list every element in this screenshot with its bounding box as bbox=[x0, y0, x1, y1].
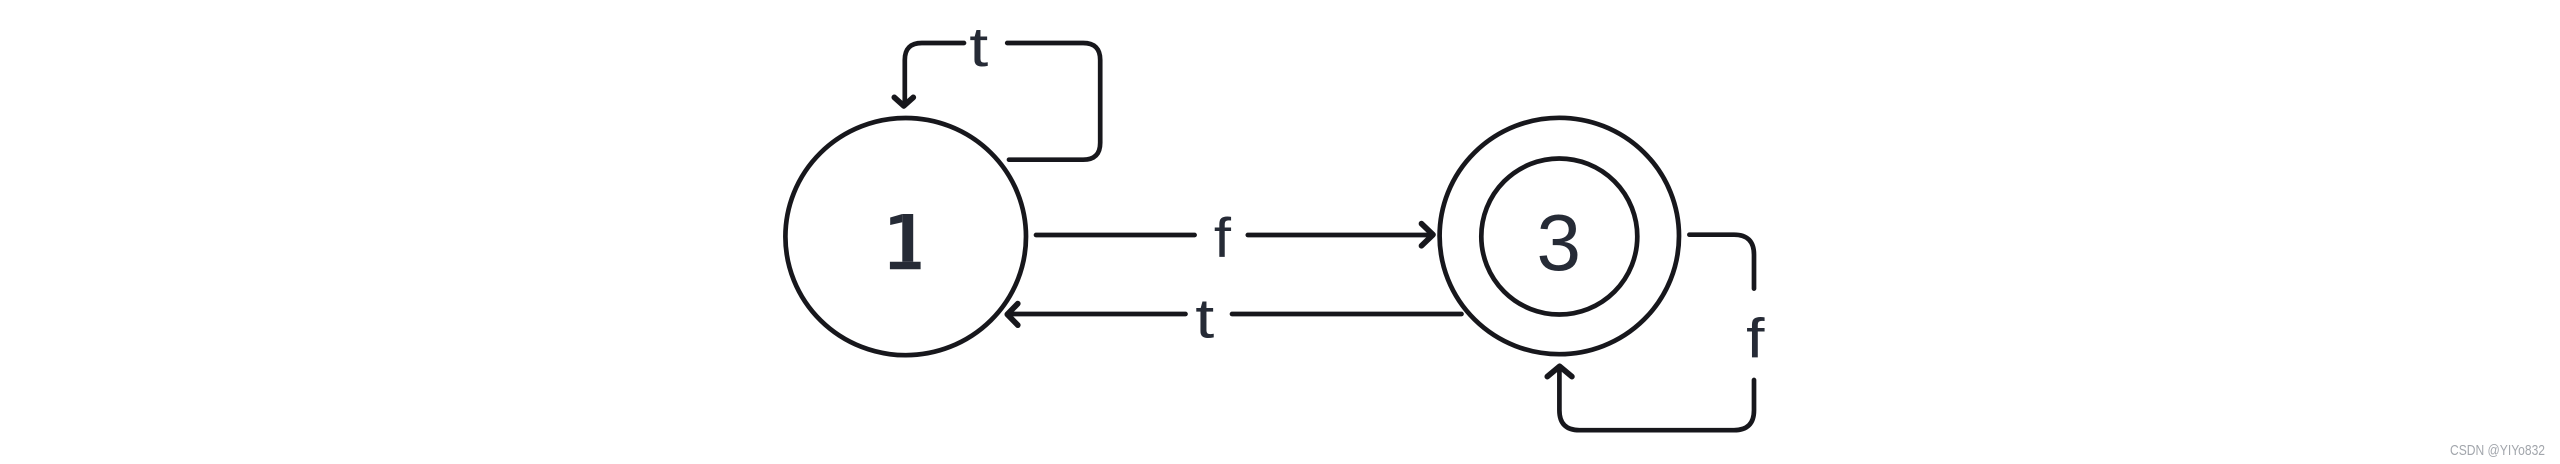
state 3 outer circle bbox=[1440, 118, 1679, 354]
transition wire f from state 1 to state 3 bbox=[1036, 233, 1429, 238]
svg-text:3: 3 bbox=[1536, 198, 1581, 287]
arrowhead into state 1 top bbox=[894, 97, 913, 106]
state 1 label "1" bbox=[890, 214, 921, 269]
arrowhead into state 3 bottom bbox=[1547, 366, 1572, 376]
svg-text:f: f bbox=[1746, 307, 1765, 369]
transition wire t from state 3 to state 1 bbox=[1008, 312, 1462, 317]
arrowhead f at state 3 bbox=[1422, 224, 1434, 246]
label f of transition 1 to 3 bbox=[1214, 207, 1232, 269]
label t of self-loop on state 1 bbox=[969, 16, 988, 79]
label t of transition 3 to 1 bbox=[1195, 287, 1214, 350]
svg-text:t: t bbox=[969, 16, 988, 79]
self-loop t wire on state 1 bbox=[905, 43, 1100, 160]
svg-text:t: t bbox=[1195, 287, 1214, 350]
svg-text:f: f bbox=[1214, 207, 1232, 269]
self-loop f wire on state 3 bbox=[1559, 235, 1754, 431]
state 3 inner circle bbox=[1481, 159, 1637, 315]
svg-text:CSDN @YIYo832: CSDN @YIYo832 bbox=[2450, 443, 2545, 459]
label f of self-loop on state 3 bbox=[1746, 307, 1765, 369]
state 1 circle bbox=[785, 118, 1026, 355]
arrowhead t at state 1 bbox=[1007, 304, 1018, 326]
